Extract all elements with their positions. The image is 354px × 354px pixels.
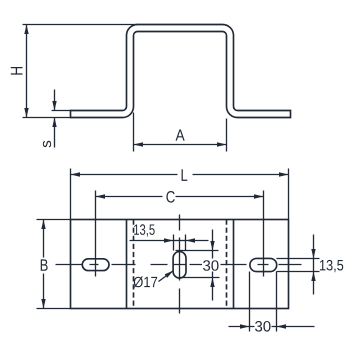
13,5 right: line between tips <box>313 259 315 272</box>
label H <box>11 67 23 75</box>
s top extension line <box>52 110 71 112</box>
dimension B line lower segment <box>43 274 45 309</box>
13,5 right: bottom arrow <box>313 272 315 295</box>
30 centre: bottom extension line <box>180 277 220 279</box>
C right extension / right slot centreline <box>263 191 265 277</box>
dimension A line with arrows <box>134 144 227 146</box>
plan view rectangle <box>71 220 289 309</box>
centre hole vertical centreline <box>179 215 181 314</box>
dimension H line with arrows <box>26 25 28 118</box>
label B <box>41 259 48 270</box>
label L <box>182 169 188 181</box>
plan view bend line left (solid) <box>126 220 128 309</box>
plan view bend line right (solid) <box>233 220 235 309</box>
Ø17 leader line with arrow <box>159 271 174 282</box>
30 bottom: right extension line <box>276 272 278 332</box>
L right extension line <box>288 169 290 220</box>
30 bottom: left arrow <box>229 326 250 328</box>
13,5 centre: extension line at hole left edge <box>173 235 175 251</box>
label 13,5 right <box>320 260 343 272</box>
30 centre: dimension line segments <box>212 251 214 278</box>
30 bottom: dimension line segments <box>250 326 277 328</box>
13,5 centre: left arrow line <box>130 240 174 242</box>
centre hole Ø17 (obround) <box>173 252 186 278</box>
H top extension line <box>23 24 139 26</box>
label A <box>176 130 185 141</box>
label 30 centre <box>203 260 219 271</box>
13,5 right: top extension line <box>277 258 320 260</box>
13,5 right: bottom extension line <box>277 271 320 273</box>
dimension C line left segment <box>96 196 163 198</box>
right slot (obround) <box>250 258 277 271</box>
s lower arrow <box>54 118 56 148</box>
dimension L line left segment <box>71 174 178 176</box>
left slot (obround) <box>82 259 109 271</box>
horizontal row centreline <box>56 264 302 266</box>
B bottom extension line <box>37 308 71 310</box>
label Ø17 <box>134 276 158 287</box>
label C <box>166 191 174 203</box>
hat profile outline (side view) <box>71 25 291 118</box>
plan view hidden line right (dashed) <box>226 220 228 309</box>
H bottom / s bottom extension line <box>23 117 71 119</box>
13,5 centre: extension line at hole right edge <box>185 235 187 251</box>
C left extension / left slot centreline <box>95 191 97 277</box>
A right extension line <box>226 119 228 152</box>
plan view hidden line left (dashed) <box>133 220 135 309</box>
B top extension line <box>37 219 71 221</box>
13,5 right: top arrow <box>313 235 315 259</box>
30 bottom: right arrow <box>277 326 315 328</box>
dimension B line upper segment <box>43 220 45 258</box>
L left extension line <box>70 169 72 220</box>
30 bottom: left extension line <box>249 272 251 332</box>
30 centre: bottom arrow <box>212 278 214 301</box>
label 13,5 centre <box>134 224 155 236</box>
label s <box>43 141 51 148</box>
13,5 centre: line between tips <box>174 240 186 242</box>
30 centre: top extension line <box>176 250 219 252</box>
A left extension line <box>133 113 135 152</box>
dimension L line right segment <box>193 174 289 176</box>
label 30 bottom <box>255 321 271 332</box>
s upper arrow <box>54 90 56 111</box>
dimension C line right segment <box>176 196 264 198</box>
30 centre: top arrow <box>212 230 214 251</box>
13,5 centre: right arrow line <box>186 240 209 242</box>
